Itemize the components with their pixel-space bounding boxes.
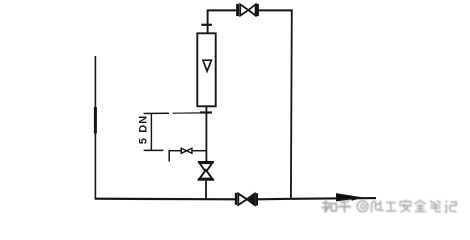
全: [415, 201, 427, 212]
wire: rotameter inlet drop: [207, 10, 209, 34]
flow arrow (outlet direction): [337, 194, 363, 201]
wire: rotameter outlet pipe: [205, 106, 207, 162]
valve V1 (top bypass globe valve): [238, 4, 258, 16]
dimension: 5 DN extension lines: [144, 113, 205, 150]
工: [386, 203, 397, 212]
wire: right return pipe: [290, 10, 293, 200]
笔: [430, 201, 441, 212]
rotameter float: [203, 60, 212, 71]
valve V4 (outlet valve): [236, 193, 257, 206]
flange: rotameter bottom connection: [200, 111, 212, 113]
valve V3 (block valve below rotameter): [198, 162, 215, 180]
wire: drain branch left segment: [169, 150, 181, 152]
wire: drain branch right segment: [192, 150, 207, 152]
安: [399, 200, 412, 213]
@: [357, 201, 368, 212]
rotameter FI body: [197, 33, 215, 106]
wire: top bypass run right of valve: [259, 9, 293, 11]
wire: left pipe heavy segment: [94, 107, 97, 134]
记: [445, 202, 457, 213]
wire: inlet left vertical pipe: [94, 56, 96, 199]
watermark: 知乎 @化工安全笔记: [322, 200, 457, 213]
wire: top bypass run left of valve: [208, 9, 237, 11]
valve V2 (drain valve): [181, 148, 192, 154]
化: [372, 201, 384, 213]
乎: [338, 201, 352, 213]
知: [322, 200, 337, 213]
svg-text:5 DN: 5 DN: [137, 115, 149, 144]
wire: drain drop elbow: [168, 150, 170, 162]
wire: bottom header right of outlet valve to arrow: [257, 198, 376, 199]
wire: pipe valve to bottom header: [205, 181, 207, 200]
wire: bottom header left of outlet valve: [95, 198, 237, 201]
flange: rotameter top connection: [201, 24, 212, 26]
